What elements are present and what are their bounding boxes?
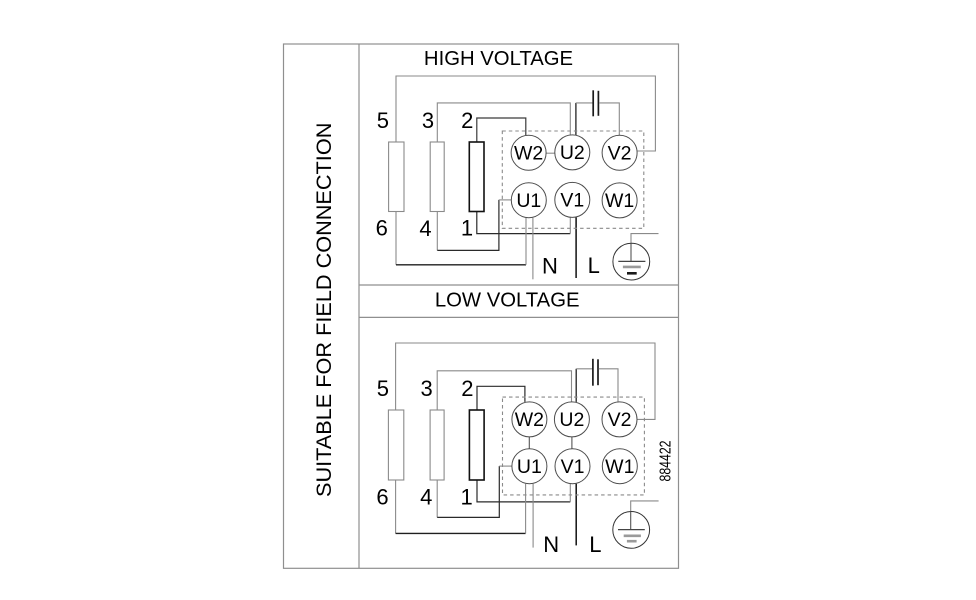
svg-text:V2: V2 — [608, 409, 632, 431]
svg-text:2: 2 — [461, 108, 473, 133]
terminal link bar 3-4 — [430, 142, 444, 212]
wire link W2-U1 (low voltage) — [528, 437, 530, 449]
wire 4 drop (low voltage) — [436, 480, 438, 517]
svg-text:U1: U1 — [516, 190, 541, 212]
svg-text:884422: 884422 — [658, 440, 675, 481]
svg-text:3: 3 — [420, 376, 432, 401]
terminal V2 (low voltage) — [602, 402, 637, 437]
wire 2 to W2 (low voltage) — [477, 386, 525, 410]
svg-text:L: L — [588, 253, 600, 278]
terminal W2 (low voltage) — [512, 402, 547, 437]
wire U1 stub from bottom run (low voltage) — [525, 484, 527, 534]
svg-text:W1: W1 — [605, 456, 634, 478]
terminal link bar 5-6 (low voltage) — [388, 410, 403, 480]
terminal V1 (low voltage) — [555, 449, 590, 484]
wire U2 stub to capacitor (low voltage) — [575, 369, 577, 402]
svg-text:V2: V2 — [608, 143, 632, 165]
wire 6 drop (low voltage) — [395, 480, 397, 533]
terminal W2 (high voltage) — [511, 135, 546, 170]
wire link U2-V1 (low voltage) — [571, 437, 573, 449]
svg-text:HIGH VOLTAGE: HIGH VOLTAGE — [424, 48, 573, 70]
wire 3 to U2 (low voltage) — [437, 371, 571, 410]
wire 1 to V1 — [477, 212, 571, 234]
wire U1 stub from bottom run — [525, 218, 527, 265]
svg-text:N: N — [543, 532, 559, 557]
wire capacitor left lead — [576, 102, 593, 104]
ground symbol (low voltage) — [613, 512, 650, 549]
svg-text:V1: V1 — [561, 456, 585, 478]
svg-text:LOW VOLTAGE: LOW VOLTAGE — [435, 290, 580, 312]
wire 4 to U1 (dark run) — [437, 200, 499, 251]
wire 4 to U1 dark run (low voltage) — [437, 466, 499, 517]
svg-text:SUITABLE FOR FIELD CONNECTION: SUITABLE FOR FIELD CONNECTION — [311, 123, 336, 497]
terminal U2 (high voltage) — [555, 135, 590, 170]
wire U2 stub to capacitor — [575, 103, 577, 135]
svg-text:U1: U1 — [517, 456, 542, 478]
capacitor C (low voltage) — [593, 359, 598, 386]
wire 1 to V1 (low voltage) — [477, 480, 570, 502]
svg-text:U2: U2 — [560, 142, 585, 164]
wire 6 drop — [395, 212, 397, 265]
svg-text:N: N — [542, 253, 558, 278]
wire N terminal — [532, 218, 534, 279]
wire into U1 left (low voltage) — [499, 465, 512, 467]
svg-text:5: 5 — [377, 376, 389, 401]
wire L terminal (low voltage) — [575, 484, 577, 546]
terminal link bar 5-6 — [389, 142, 404, 212]
svg-text:5: 5 — [377, 108, 389, 133]
terminal W1 (high voltage) — [602, 183, 637, 218]
svg-text:W1: W1 — [605, 190, 634, 212]
frame outer border — [284, 44, 679, 568]
terminal board dashed box (high voltage) — [502, 131, 644, 228]
svg-text:3: 3 — [422, 108, 434, 133]
wire 3 to U2 — [437, 103, 570, 142]
ground symbol (high voltage) — [613, 243, 650, 280]
wire 4 drop — [436, 212, 438, 251]
terminal link bar 2-1 (low voltage) — [469, 410, 484, 480]
wire into U1 left — [499, 199, 511, 201]
svg-text:4: 4 — [419, 216, 431, 241]
svg-text:V1: V1 — [560, 190, 584, 212]
terminal link bar 2-1 — [469, 142, 484, 212]
frame divider vertical (left column / diagrams) — [358, 44, 360, 568]
wire N terminal (low voltage) — [532, 484, 534, 548]
wire capacitor left lead (low voltage) — [576, 368, 592, 370]
terminal V1 (high voltage) — [555, 182, 590, 217]
wire L terminal — [575, 217, 577, 278]
svg-text:2: 2 — [461, 376, 473, 401]
wire 2 to W2 — [477, 118, 526, 142]
svg-text:6: 6 — [376, 484, 388, 509]
terminal W1 (low voltage) — [602, 449, 637, 484]
wire ground lead (high voltage) — [631, 234, 659, 262]
wire loop 5 to V2 (low voltage) — [396, 343, 655, 419]
wire link W2-U2 — [546, 152, 555, 154]
svg-text:1: 1 — [461, 216, 473, 241]
wire loop 5 to V2 (top) — [396, 76, 655, 151]
terminal link bar 3-4 (low voltage) — [430, 410, 444, 480]
capacitor C (high voltage) — [593, 90, 598, 116]
terminal U2 (low voltage) — [554, 402, 589, 437]
terminal V2 (high voltage) — [602, 135, 637, 170]
svg-text:W2: W2 — [514, 143, 543, 165]
wire 6 to U1 bottom run — [396, 264, 526, 266]
terminal board dashed box (low voltage) — [503, 397, 645, 495]
wire capacitor to V2 — [599, 103, 619, 135]
svg-text:1: 1 — [460, 484, 472, 509]
svg-text:4: 4 — [420, 485, 432, 510]
frame divider horizontal (bottom of LOW VOLTAGE band) — [359, 316, 679, 318]
svg-text:L: L — [589, 532, 601, 557]
wire ground lead (low voltage) — [631, 501, 659, 530]
svg-text:W2: W2 — [515, 409, 544, 431]
wire 6 to U1 bottom run (low voltage) — [396, 532, 526, 534]
frame divider horizontal (top of LOW VOLTAGE band) — [359, 284, 679, 286]
terminal U1 (low voltage) — [512, 449, 547, 484]
wire capacitor to V2 (low voltage) — [599, 369, 618, 402]
svg-text:6: 6 — [376, 216, 388, 241]
terminal U1 (high voltage) — [511, 183, 546, 218]
svg-text:U2: U2 — [559, 409, 584, 431]
